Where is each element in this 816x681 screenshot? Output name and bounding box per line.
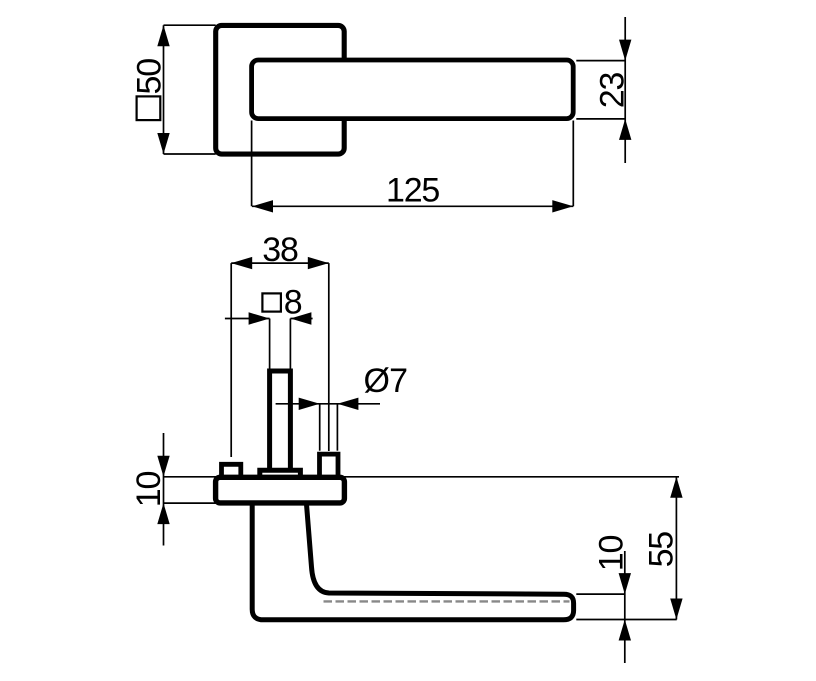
dimension 23: arrow down xyxy=(619,40,631,61)
svg-text:Ø7: Ø7 xyxy=(364,362,408,400)
dimension square50: arrow down xyxy=(157,133,169,154)
dimension square8: arrow pointing left xyxy=(290,312,311,324)
dimension square8: arrow pointing right xyxy=(249,312,270,324)
dimension 55: arrow up xyxy=(670,477,682,498)
dimension dia7: arrow pointing left xyxy=(337,398,358,410)
dimension dia7: arrow pointing right xyxy=(299,398,320,410)
rosette plate (side view) xyxy=(216,477,345,503)
dimension 10 right: dimension line xyxy=(624,551,626,663)
dimension 10 left: dimension line xyxy=(163,433,165,546)
dimension 55: arrow down xyxy=(670,599,682,620)
dimension square8: extension line right xyxy=(289,319,291,371)
dimension dia7: extension line right xyxy=(336,404,338,451)
spindle collar xyxy=(260,470,301,479)
spindle (square bar, side view) xyxy=(270,371,291,471)
extension line at plate bottom left xyxy=(164,502,216,504)
dimension 23: dimension line xyxy=(624,17,626,163)
long extension line at plate top level xyxy=(164,476,680,478)
dimension dia7: extension line left xyxy=(319,404,321,451)
dimension square8: left tail line xyxy=(225,318,270,320)
svg-text:38: 38 xyxy=(262,231,298,269)
dimension 38: arrow right xyxy=(308,257,329,269)
dimension dia7: dimension line xyxy=(276,403,380,405)
dimension square50: extension lines xyxy=(164,25,216,154)
dimension 10 left: arrow down xyxy=(157,456,169,477)
dimension 23: arrow up xyxy=(619,119,631,140)
handle profile (side view) xyxy=(252,503,573,620)
dimension 38: extension line right xyxy=(328,263,330,451)
dimension square50: dimension line xyxy=(163,25,165,154)
dimension 10 right: arrow down xyxy=(619,573,631,594)
label square50: square symbol xyxy=(137,96,161,120)
extension line at lever top right xyxy=(576,593,625,595)
lever bar (top view) xyxy=(252,60,574,119)
dimension 125: dimension line xyxy=(252,205,573,207)
dimension 38: arrow left xyxy=(231,257,252,269)
left screw post xyxy=(222,464,241,478)
dimension 125: arrow left xyxy=(252,200,273,212)
dimension square8: right tail line xyxy=(290,318,312,320)
svg-text:55: 55 xyxy=(643,532,681,568)
dimension square8: extension line left xyxy=(269,319,271,371)
dashed centerline of lever xyxy=(324,600,570,602)
svg-text:10: 10 xyxy=(593,536,631,572)
svg-text:10: 10 xyxy=(130,472,168,508)
extension line at lever bottom right xyxy=(576,619,676,621)
rosette square (top view) xyxy=(216,25,345,154)
dimension 10 left: arrow up xyxy=(157,503,169,524)
dimension 125: extension lines xyxy=(252,121,574,207)
dimension 38: dimension line xyxy=(231,262,329,264)
right screw post xyxy=(320,454,339,478)
dimension 10 right: arrow up xyxy=(619,620,631,641)
dimension 125: arrow right xyxy=(552,200,573,212)
dimension 55: dimension line xyxy=(675,477,677,620)
svg-text:50: 50 xyxy=(130,59,168,95)
svg-text:125: 125 xyxy=(386,172,439,210)
dimension 38: extension line left xyxy=(230,263,232,457)
label square8: square symbol xyxy=(262,293,281,311)
svg-text:23: 23 xyxy=(594,73,632,109)
dimension square50: arrow up xyxy=(157,25,169,46)
dimension 23: extension lines xyxy=(576,61,625,119)
